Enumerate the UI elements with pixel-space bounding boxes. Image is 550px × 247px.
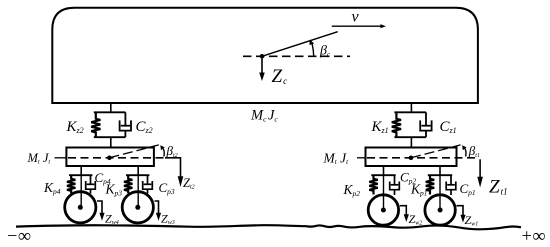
bogie right centerline dashed — [367, 157, 478, 159]
primary p2 center line — [383, 175, 385, 210]
svg-text:Kz2: Kz2 — [66, 119, 84, 135]
svg-text:+∞: +∞ — [521, 226, 546, 246]
primary p1 center line — [439, 175, 441, 210]
bogie right inclined axis — [411, 145, 461, 158]
bogie frame left Mt — [66, 148, 153, 167]
bogie left centerline dashed — [68, 157, 165, 159]
secondary left bottom bar — [94, 136, 126, 138]
car body Mc — [52, 8, 478, 103]
svg-text:βt2: βt2 — [166, 143, 178, 159]
svg-text:Kp3: Kp3 — [105, 182, 123, 198]
wheel w2 — [368, 195, 398, 225]
svg-text:Zw3: Zw3 — [161, 212, 175, 227]
svg-text:βc: βc — [319, 44, 331, 59]
secondary suspension right: top stem — [410, 103, 412, 112]
bogie right cg dot — [409, 156, 414, 161]
svg-text:McJc: McJc — [250, 108, 278, 124]
svg-text:Cz1: Cz1 — [440, 119, 457, 135]
secondary suspension left: top stem — [110, 103, 112, 112]
ground rail surface — [16, 225, 521, 229]
wheel w1 hub dot — [438, 208, 443, 213]
spring Kp2 — [369, 175, 377, 194]
svg-text:v: v — [352, 9, 360, 26]
car body cg dot — [260, 54, 265, 59]
primary p3 top bar — [126, 174, 149, 176]
svg-text:Zt1: Zt1 — [489, 177, 508, 198]
spring Kp4 — [67, 175, 75, 193]
svg-text:Cz2: Cz2 — [136, 119, 153, 135]
svg-text:Kp1: Kp1 — [410, 182, 428, 198]
Zt2 arrow — [165, 158, 183, 187]
damper Cp3 — [143, 175, 153, 193]
bogie left cg dot — [107, 156, 112, 161]
wheel w3 hub dot — [135, 205, 140, 210]
damper Cp2 — [390, 175, 400, 195]
wheel w4 — [65, 192, 96, 223]
damper Cp4 — [86, 175, 96, 193]
primary p4 top bar — [69, 174, 92, 176]
svg-text:Cp1: Cp1 — [460, 181, 476, 197]
svg-text:Zt2: Zt2 — [183, 176, 195, 191]
primary suspension p4 stem — [80, 166, 82, 175]
Mt label connector right — [357, 157, 366, 159]
svg-text:Zw1: Zw1 — [465, 213, 479, 228]
damper Cz1 — [420, 112, 431, 137]
secondary right bottom stem — [410, 137, 412, 147]
wheel w2 hub dot — [381, 208, 386, 213]
primary p2 top bar — [371, 174, 395, 176]
secondary right bottom bar — [394, 136, 426, 138]
bogie left pitch arc — [160, 145, 164, 156]
spring Kz2 — [91, 112, 100, 137]
bogie frame right Mt — [366, 148, 457, 167]
svg-text:βt1: βt1 — [468, 143, 480, 159]
primary suspension p1 stem — [439, 166, 441, 175]
Mt label connector left — [55, 157, 67, 159]
Zw4 arrow — [97, 201, 105, 221]
damper Cp1 — [446, 175, 456, 195]
pitch arc beta_c — [309, 40, 314, 57]
Zw1 arrow — [457, 206, 466, 223]
car body dashed axis — [243, 55, 350, 57]
spring Kp3 — [124, 175, 132, 193]
svg-text:−∞: −∞ — [6, 226, 31, 246]
svg-text:Zw4: Zw4 — [105, 212, 119, 227]
velocity arrow — [332, 24, 386, 28]
bogie right pitch arc — [462, 145, 466, 156]
primary suspension p2 stem — [383, 166, 385, 175]
Zt1 arrow — [477, 159, 483, 187]
Zw3 arrow — [155, 201, 162, 221]
svg-text:Mt Jt: Mt Jt — [323, 151, 350, 167]
svg-text:Zc: Zc — [272, 66, 288, 87]
primary suspension p3 stem — [137, 166, 139, 175]
primary p1 top bar — [428, 174, 452, 176]
svg-text:Mt Jt: Mt Jt — [27, 151, 51, 166]
Zw2 arrow — [400, 206, 409, 222]
secondary right top bar — [394, 111, 426, 113]
svg-text:Zw2: Zw2 — [409, 212, 423, 227]
damper Cz2 — [120, 112, 131, 137]
svg-text:Kp2: Kp2 — [343, 182, 361, 198]
svg-text:Kz1: Kz1 — [371, 119, 389, 135]
secondary left bottom stem — [110, 137, 112, 147]
wheel w3 — [122, 192, 153, 223]
Zc arrow — [259, 56, 265, 81]
spring Kp1 — [426, 175, 434, 194]
svg-text:Cp3: Cp3 — [159, 180, 175, 196]
spring Kz1 — [392, 112, 401, 137]
car body inclined axis — [262, 32, 338, 57]
wheel w1 — [425, 195, 455, 225]
primary p4 center line — [80, 175, 82, 207]
primary p3 center line — [137, 175, 139, 207]
bogie left inclined axis — [109, 145, 158, 158]
wheel w4 hub dot — [78, 205, 83, 210]
secondary left top bar — [94, 111, 126, 113]
svg-text:Kp4: Kp4 — [43, 180, 61, 196]
